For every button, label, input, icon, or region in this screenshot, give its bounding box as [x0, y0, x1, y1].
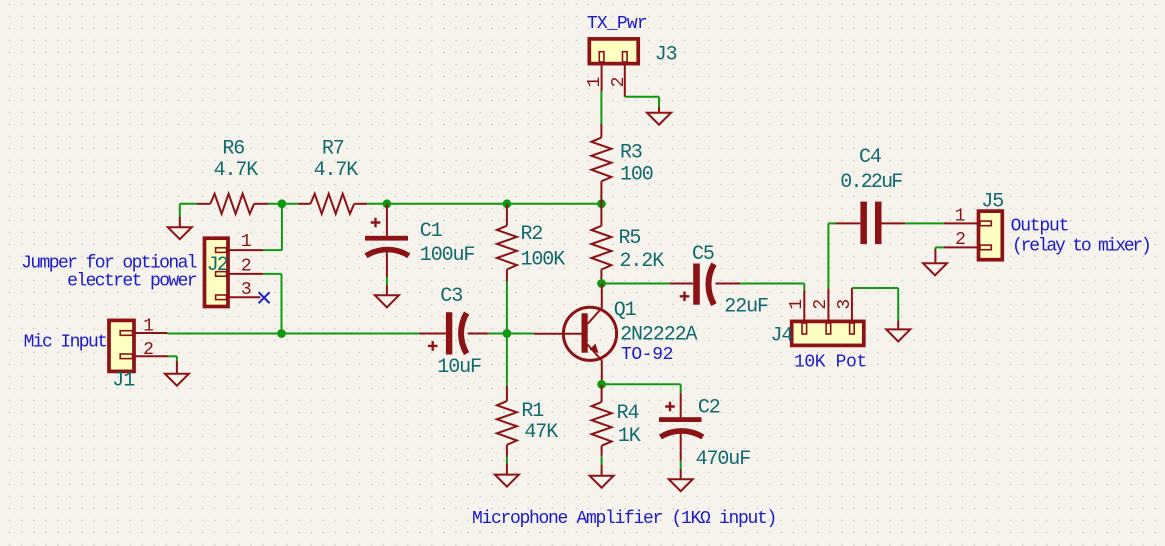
- ground right of J4: [886, 329, 910, 341]
- connector J4 10K Pot: [771, 288, 864, 347]
- pin 1 of J3: [601, 64, 603, 91]
- connector J1 Mic Input: [109, 316, 168, 392]
- wire J3.2 to gnd: [625, 96, 659, 98]
- pin 2 of J5: [944, 246, 979, 248]
- svg-text:10uF: 10uF: [437, 356, 481, 379]
- ground below C1: [375, 295, 399, 307]
- ground below R1: [495, 475, 519, 487]
- svg-text:100: 100: [620, 164, 653, 187]
- svg-text:1K: 1K: [618, 425, 641, 448]
- node junction R5/C5/collector: [597, 279, 606, 288]
- wire R7 to R3/R5 node: [367, 203, 601, 205]
- resistor R4 1K: [592, 384, 641, 475]
- svg-text:1: 1: [143, 316, 154, 336]
- svg-text:R4: R4: [617, 402, 639, 425]
- node junction R3/R5: [597, 199, 606, 208]
- svg-text:22uF: 22uF: [724, 296, 768, 319]
- svg-text:4.7K: 4.7K: [214, 159, 259, 182]
- pin 1 of J1: [134, 332, 167, 334]
- svg-text:10K Pot: 10K Pot: [794, 353, 867, 373]
- svg-text:3: 3: [241, 280, 252, 300]
- wire main bus left segment: [180, 203, 197, 205]
- ground below J3.2: [647, 113, 671, 125]
- ground below J1.2: [165, 374, 189, 386]
- no-connect X on J2.3: [259, 292, 270, 303]
- svg-text:J5: J5: [981, 190, 1003, 213]
- wire J4.3 to gnd: [852, 287, 898, 289]
- wire C5 to J4.1: [740, 283, 804, 285]
- wire J2.1 rise: [281, 204, 283, 250]
- capacitor C3 10uF: [419, 285, 489, 379]
- connector J2 jumper: [205, 232, 264, 307]
- svg-text:R2: R2: [521, 223, 543, 246]
- node junction R6/R7/J2.1: [278, 199, 287, 208]
- svg-text:TX_Pwr: TX_Pwr: [587, 14, 647, 34]
- svg-text:Jumper for optional: Jumper for optional: [21, 253, 197, 273]
- wire mic bus J1.1 to C3: [167, 333, 419, 335]
- pin 2 of J1: [134, 355, 168, 357]
- wire J4.2 rise to C4: [827, 223, 829, 288]
- svg-text:J3: J3: [655, 44, 677, 67]
- svg-text:1: 1: [787, 299, 807, 310]
- svg-text:(relay to mixer): (relay to mixer): [1012, 236, 1150, 256]
- svg-text:J1: J1: [112, 370, 135, 393]
- svg-text:R1: R1: [521, 400, 544, 423]
- node junction emitter: [597, 380, 606, 389]
- pin 2 of J4: [827, 288, 829, 321]
- svg-text:470uF: 470uF: [696, 448, 751, 471]
- svg-text:electret power: electret power: [67, 272, 197, 292]
- ground below R4: [590, 476, 614, 488]
- resistor R3 100: [591, 124, 652, 204]
- wire J3.1 to R3: [600, 91, 602, 124]
- wire J5.2 to gnd: [935, 246, 943, 248]
- svg-text:2: 2: [241, 256, 252, 276]
- ground below C2: [669, 479, 693, 491]
- wire J1.2 to gnd: [168, 355, 177, 357]
- svg-text:2: 2: [609, 77, 629, 88]
- svg-text:Output: Output: [1011, 217, 1069, 237]
- svg-text:100K: 100K: [521, 249, 566, 272]
- wire J2.2 stub: [263, 273, 281, 275]
- pin 1 of J5: [944, 222, 979, 224]
- svg-text:Q1: Q1: [614, 299, 637, 322]
- svg-text:C1: C1: [420, 220, 443, 243]
- svg-text:J4: J4: [771, 324, 793, 347]
- pin 3 of J4: [851, 288, 853, 321]
- pin 2 of J2: [228, 273, 263, 275]
- svg-text:R5: R5: [619, 227, 641, 250]
- svg-text:2: 2: [955, 230, 966, 250]
- resistor R1 47K: [497, 334, 558, 475]
- svg-text:1: 1: [241, 232, 252, 252]
- svg-text:1: 1: [955, 206, 966, 226]
- wire J2.1 stub: [263, 249, 282, 251]
- node junction R2 tap: [503, 199, 512, 208]
- svg-text:2N2222A: 2N2222A: [620, 324, 697, 347]
- capacitor C1 100uF: [365, 204, 474, 295]
- node junction J2.2 tap: [277, 329, 286, 338]
- wire left gnd drop: [179, 204, 181, 218]
- resistor R2 100K: [497, 204, 565, 282]
- wire R6 to R7: [268, 203, 298, 205]
- svg-text:J2: J2: [207, 254, 228, 277]
- capacitor C2 470uF: [602, 384, 751, 479]
- svg-text:C3: C3: [440, 285, 462, 308]
- svg-text:C2: C2: [698, 396, 720, 419]
- connector J5 Output: [944, 190, 1004, 259]
- pin 1 of J2: [228, 249, 263, 251]
- transistor Q1 2N2222A: [534, 284, 698, 385]
- svg-text:3: 3: [835, 299, 855, 310]
- svg-text:100uF: 100uF: [420, 244, 475, 267]
- resistor R7: [298, 138, 367, 214]
- wire C4 to J5.1: [905, 222, 944, 224]
- pin 2 of J3: [624, 64, 626, 97]
- wire C3 to base node: [489, 333, 534, 335]
- svg-text:4.7K: 4.7K: [314, 159, 359, 182]
- pin 3 of J2: [228, 296, 260, 298]
- svg-text:C5: C5: [692, 243, 714, 266]
- svg-text:R6: R6: [222, 138, 244, 161]
- svg-text:C4: C4: [859, 146, 881, 169]
- svg-text:0.22uF: 0.22uF: [840, 171, 902, 194]
- ground below J5.2: [923, 263, 947, 275]
- resistor R6: [197, 138, 268, 214]
- svg-text:2: 2: [811, 299, 831, 310]
- svg-text:R3: R3: [620, 142, 642, 165]
- connector J3 TX_Pwr: [585, 14, 677, 97]
- svg-text:R7: R7: [322, 138, 344, 161]
- ground left of R6: [168, 227, 192, 239]
- svg-text:Microphone Amplifier (1KΩ inpu: Microphone Amplifier (1KΩ input): [472, 509, 776, 529]
- capacitor C4 0.22uF: [828, 146, 905, 244]
- wire R2 to lower bus: [506, 282, 508, 334]
- svg-text:2: 2: [143, 340, 154, 360]
- pin 1 of J4: [803, 291, 805, 322]
- capacitor C5 22uF: [604, 243, 768, 318]
- node junction R2/R1/base: [503, 329, 512, 338]
- svg-text:Mic Input: Mic Input: [24, 333, 107, 353]
- svg-text:47K: 47K: [524, 421, 558, 444]
- svg-text:TO-92: TO-92: [621, 345, 673, 365]
- node junction C1 tap: [383, 199, 392, 208]
- svg-text:1: 1: [585, 77, 605, 88]
- svg-text:2.2K: 2.2K: [620, 250, 665, 273]
- resistor R5 2.2K: [591, 204, 664, 284]
